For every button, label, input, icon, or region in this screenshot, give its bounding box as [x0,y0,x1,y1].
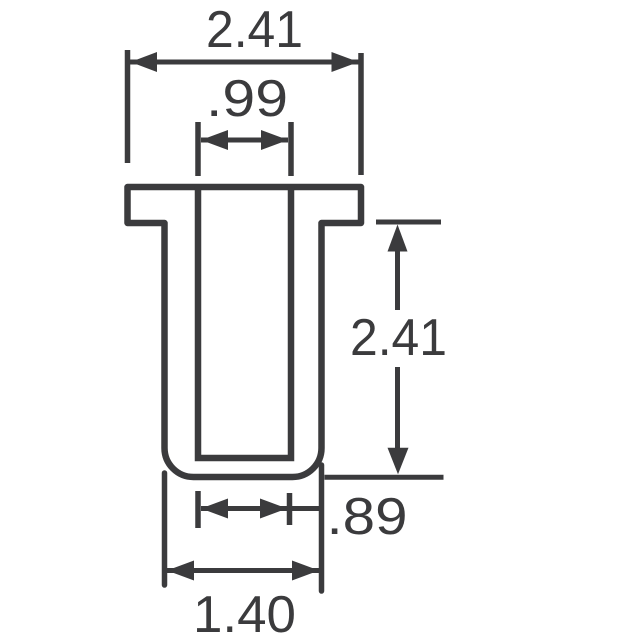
dimension 1.40: left arrowhead [167,561,194,581]
dimension .99: right extension line [288,122,294,176]
dimension .99: right arrowhead [261,130,288,150]
svg-text:.99: .99 [206,70,288,128]
dimension 2.41 right: label [350,309,447,367]
dimension 2.41 right: bottom extension line [325,475,444,480]
dimension 2.41 right: up arrowhead [388,225,408,252]
dimension 2.41 top: right extension line [358,53,364,175]
dimension 2.41 top: dimension line [130,60,359,65]
dimension 2.41 right: down arrowhead [388,448,409,474]
dimension .99: left extension line [195,122,201,176]
dimension 1.40: left extension line [162,473,168,585]
dimension .89: label [327,488,408,546]
dimension .99: dimension line [201,138,288,143]
svg-text:2.41: 2.41 [350,309,447,367]
dimension .89: left arrowhead [201,499,228,519]
dimension .99: label [206,70,288,128]
dimension .99: left arrowhead [201,130,228,150]
dimension 1.40: right arrowhead [292,561,319,581]
dimension 1.40: dimension line [167,568,319,573]
svg-text:.89: .89 [327,488,408,546]
dimension .89: left tick [195,491,201,528]
part inner cavity (U shape) [198,187,291,458]
dimension 2.41 top: left arrowhead [131,52,158,72]
dimension 1.40: label [193,586,296,640]
dimension 2.41 right: lower shaft [395,367,400,449]
dimension 2.41 right: top extension line [376,220,441,225]
dimension 2.41 top: left extension line [125,50,131,163]
part outer profile (flanged cup cross-section) [128,187,362,477]
dimension 2.41 right: upper shaft [395,248,400,310]
dimension .89: dimension line [201,506,322,511]
svg-text:2.41: 2.41 [206,1,303,59]
svg-text:1.40: 1.40 [193,586,296,640]
dimension 1.40: right extension line [319,465,325,591]
dimension .89: right tick [287,493,293,525]
dimension .89: right arrowhead [260,499,287,519]
dimension 2.41 top: right arrowhead [332,52,359,72]
dimension 2.41 top: label [206,1,303,59]
